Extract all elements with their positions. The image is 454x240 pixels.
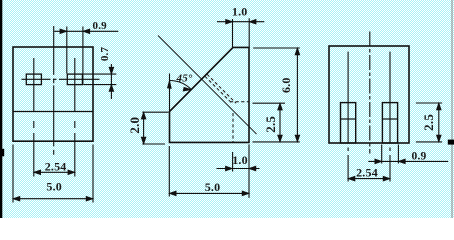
package vertical center line [53,26,55,155]
dim 2.0 line [143,112,145,144]
dim 2.0 arrows [141,112,146,144]
45 deg arc [170,81,192,90]
dim 2.54 line [34,171,75,173]
svg-text:0.9: 0.9 [412,151,427,163]
dim 0.9 line [368,160,448,162]
dim 2.5 extension top [253,102,286,104]
dim 1.0 bottom extensions [233,144,249,198]
45 deg arc arrows [168,81,192,92]
dim 0.7 extension lines [84,74,117,85]
lead right inner line [382,118,397,120]
dim 5.0 arrows [13,196,93,201]
dim 2.54 arrows [348,176,390,181]
svg-text:2.5: 2.5 [421,114,436,131]
dim 6.0 line [296,48,298,142]
dim 0.7 arrows [109,67,114,91]
svg-text:1.0: 1.0 [232,5,248,19]
left page border bar [0,0,2,218]
dim 6.0 / 2.5 extension bottom [253,141,300,143]
optical axis vertical dashed [232,113,234,142]
package center line [369,32,371,154]
dim 6.0 arrows [295,48,300,142]
dim 0.9 arrows [375,159,405,164]
dim 6.0 extension top [253,47,300,49]
right border blob [448,140,454,145]
dim 2.5 line [438,103,440,142]
lead right center line [389,52,391,182]
dashed beam line B [207,74,236,103]
svg-text:2.5: 2.5 [263,116,278,133]
optical axis horizontal dashed [230,101,249,103]
pad left [26,74,41,85]
dim 0.7 line [110,64,112,99]
right border line [451,0,453,218]
dim 1.0 bottom line [217,168,260,170]
dim 5.0 mid line [169,192,249,194]
dim 0.9 line [54,30,118,32]
dim 0.9 arrows [60,29,90,34]
svg-text:0.9: 0.9 [93,20,108,32]
svg-text:2.54: 2.54 [45,160,67,174]
package outline (side view) [170,47,250,142]
dim 5.0 mid extension left [168,146,170,197]
mirror 45 deg line [158,36,257,135]
package outline (side/back view) [329,46,409,143]
dim 2.54 arrows [34,170,75,175]
border bump mark [0,149,4,157]
lead left inner line [341,118,356,120]
dim 5.0 extension lines [13,145,93,203]
left edge extension above P1 [169,74,171,112]
internal horizontal line [13,111,93,113]
svg-text:2.54: 2.54 [356,165,378,179]
dim 2.5 arrows [278,103,283,142]
lead center line left [33,58,35,177]
package outline (top view) [13,47,93,141]
dim 2.54 line [348,178,390,180]
dim 2.5 line [279,103,281,142]
lead left [341,103,356,143]
dim 2.0 extension lines [142,112,168,144]
dim 1.0 top arrows [226,19,256,24]
svg-text:6.0: 6.0 [279,77,293,93]
dashed beam line A [205,76,232,103]
dim 5.0 mid arrows [169,191,249,196]
svg-text:0.7: 0.7 [99,47,111,62]
pad right [67,74,82,85]
lead right [382,103,397,143]
lead left center line [347,52,349,182]
lead center line right [74,58,76,177]
svg-text:5.0: 5.0 [46,180,62,194]
dim 0.9 extension lines [67,27,83,85]
dim 5.0 line [13,198,93,200]
dim 0.9 extension lines [382,145,399,164]
svg-text:2.0: 2.0 [127,117,142,134]
package horizontal center line [22,78,100,80]
dim 1.0 top extension lines [233,18,250,47]
dim 1.0 bottom arrows [226,166,256,171]
dim 1.0 top line [217,21,264,23]
svg-text:45°: 45° [176,73,193,85]
dim 2.5 extension lines [416,103,442,142]
svg-text:5.0: 5.0 [205,180,221,194]
svg-text:1.0: 1.0 [232,153,248,167]
dim 2.5 arrows [437,103,442,142]
